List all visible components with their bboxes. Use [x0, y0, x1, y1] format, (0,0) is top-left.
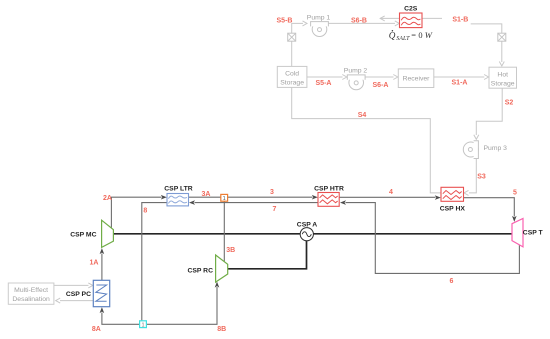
svg-text:S6-B: S6-B [351, 18, 367, 25]
wire 3 (node 1 to CSP HTR) [228, 189, 318, 199]
tank Cold Storage [277, 66, 307, 87]
svg-text:SALT: SALT [396, 36, 410, 42]
wire 8A (node 1 to CSP PC) [92, 307, 140, 333]
svg-text:Desalination: Desalination [12, 296, 50, 303]
svg-text:8: 8 [143, 208, 147, 215]
svg-text:5: 5 [513, 189, 517, 196]
valve V2 (right, above hot storage) [498, 33, 506, 41]
svg-text:3: 3 [270, 189, 274, 196]
svg-text:3B: 3B [226, 247, 235, 254]
svg-text:1: 1 [223, 196, 226, 202]
svg-text:Multi-Effect: Multi-Effect [14, 287, 48, 294]
svg-text:Storage: Storage [491, 81, 515, 88]
wire 8 (CSP LTR hot outlet down to splitter node 1) [142, 203, 167, 321]
svg-text:Receiver: Receiver [403, 76, 431, 83]
wire 3B (CSP RC outlet up to mixer node 1) [224, 201, 235, 261]
svg-text:4: 4 [389, 189, 393, 196]
svg-text:CSP RC: CSP RC [187, 268, 213, 275]
svg-text:S1-A: S1-A [452, 79, 468, 86]
svg-text:S6-A: S6-A [373, 82, 389, 89]
svg-text:8B: 8B [217, 326, 226, 333]
svg-text:Pump 3: Pump 3 [484, 145, 508, 152]
svg-text:CSP HX: CSP HX [440, 206, 466, 213]
svg-text:1: 1 [141, 323, 144, 329]
tank Hot Storage [489, 67, 517, 88]
svg-text:S5-A: S5-A [316, 80, 332, 87]
svg-text:8A: 8A [92, 326, 101, 333]
label Q_SALT = 0 W [389, 30, 433, 42]
shaft MC to CSP A to CSP T [113, 233, 512, 235]
svg-text:S2: S2 [505, 99, 514, 106]
wire S3 (Pump 3 down to CSP HX salt side) [464, 158, 486, 195]
pump Pump 3 (rotated) [463, 141, 507, 159]
svg-text:Q: Q [389, 30, 396, 40]
wire 2A (CSP MC outlet to CSP LTR) [103, 195, 167, 228]
svg-text:W: W [425, 30, 433, 40]
svg-text:3A: 3A [202, 191, 211, 198]
shaft CSP RC to CSP A [228, 240, 307, 268]
svg-text:CSP PC: CSP PC [66, 291, 91, 298]
wire S1-A (Receiver to hot storage) [434, 75, 489, 87]
svg-text:S4: S4 [358, 112, 367, 119]
heat exchanger C2S [400, 6, 423, 28]
wire 3A (CSP LTR to mixer node 1) [189, 191, 221, 198]
wire S2 (hot storage down to Pump 3) [474, 88, 514, 139]
cooler CSP PC [66, 280, 110, 306]
heat exchanger CSP LTR [164, 185, 193, 206]
svg-text:Hot: Hot [497, 71, 508, 78]
svg-text:6: 6 [450, 278, 454, 285]
svg-text:S3: S3 [477, 174, 486, 181]
svg-text:1A: 1A [90, 259, 99, 266]
compressor CSP RC [187, 255, 227, 282]
svg-text:CSP HTR: CSP HTR [314, 186, 344, 193]
svg-text:CSP MC: CSP MC [70, 232, 96, 239]
block Multi-Effect Desalination [8, 283, 54, 304]
svg-text:S5-B: S5-B [277, 18, 293, 25]
wire S5-A (cold storage to Pump 2) [307, 75, 347, 87]
wire 6 (CSP T exhaust to CSP HTR hot inlet) [340, 200, 519, 284]
wire 4 (CSP HTR to CSP HX) [339, 189, 441, 200]
svg-text:2A: 2A [103, 195, 112, 202]
wire S5-B (cold storage up through valve to Pump 1) [277, 18, 307, 67]
svg-text:CSP LTR: CSP LTR [164, 185, 193, 192]
svg-text:Pump 2: Pump 2 [344, 68, 368, 75]
svg-text:Cold: Cold [285, 70, 299, 77]
svg-text:7: 7 [273, 206, 277, 213]
valve V1 (left, below Pump 1) [288, 33, 296, 41]
svg-text:CSP A: CSP A [297, 221, 317, 228]
wire S1-B (C2S upper channel to hot storage via valve, arrow to the left) [380, 16, 504, 66]
wire 5 (CSP HX to CSP T inlet) [464, 189, 518, 222]
svg-text:=: = [411, 31, 416, 40]
heat exchanger CSP HTR [314, 186, 344, 207]
block Receiver [398, 69, 434, 88]
wire S4 (CSP HX salt outlet back to cold storage) [292, 87, 441, 192]
wire S6-A (Pump 2 to Receiver) [365, 75, 398, 90]
svg-text:Storage: Storage [280, 80, 304, 87]
pump Pump 2 [344, 68, 368, 90]
wire 1A (CSP PC to CSP MC) [90, 248, 105, 280]
svg-text:Pump 1: Pump 1 [307, 14, 331, 21]
wire 8B (node 1 to CSP RC) [147, 282, 226, 334]
wire S6-B (Pump 1 outlet to C2S) [328, 18, 399, 26]
svg-text:S1-B: S1-B [452, 16, 468, 23]
wire desalination supply (desalination to CSP PC) [54, 283, 93, 288]
generator CSP A [297, 221, 317, 240]
svg-text:0: 0 [418, 31, 422, 40]
turbine CSP T [512, 218, 544, 247]
compressor CSP MC [70, 220, 113, 247]
heat exchanger CSP HX [440, 187, 466, 212]
svg-text:CSP T: CSP T [523, 229, 544, 236]
pump Pump 1 [307, 14, 331, 36]
node 1 (orange mixer on line 3) [221, 194, 228, 202]
wire desalination return (CSP PC to desalination) [56, 298, 94, 303]
svg-text:C2S: C2S [404, 6, 418, 13]
wire 7 (CSP HTR hot outlet to CSP LTR hot inlet) [189, 200, 318, 213]
node 1 (cyan splitter on line 8) [140, 321, 147, 329]
